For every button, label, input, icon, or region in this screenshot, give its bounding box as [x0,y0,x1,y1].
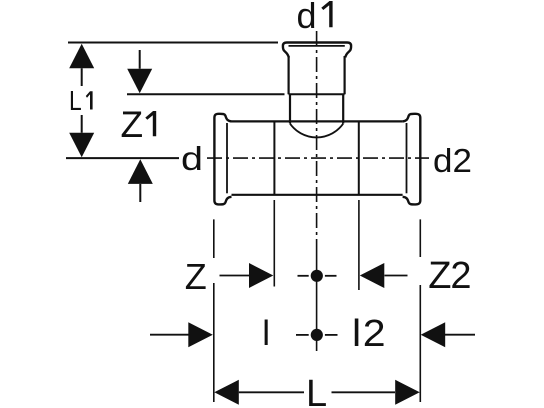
branch tube right wall [342,94,344,123]
branch socket stop (step) [289,93,345,95]
right bead (right socket mouth) [403,114,421,205]
dimension L line right part [332,391,396,393]
left socket stop extension line [273,200,275,287]
dash right of Z center dot [325,275,337,277]
dash left of Z center dot [298,275,309,277]
dimension L line left part [239,391,304,393]
label Z1 [121,106,159,143]
arrow L1 down [69,133,94,157]
arrow L1 up [69,44,94,69]
right socket stop (step) [358,122,360,195]
left socket stop (step) [273,122,275,195]
branch socket left wall [288,56,290,94]
digit 1 of label d1 [321,1,332,27]
dimension Z1 top stem [139,50,141,69]
saddle arc where branch meets body [290,124,343,138]
branch socket inner lip [289,45,345,47]
arrow Z2 left [360,263,385,288]
arrow Z1 down [127,69,152,94]
right socket inner lip [406,123,408,193]
tee fitting: branch bead (top socket mouth) [283,43,351,58]
label d [181,143,203,177]
left socket inner lip [226,123,228,193]
label l [262,316,270,351]
arrow L right [395,380,420,405]
dimension Z1 bottom stem [139,184,141,202]
dimension l2 leader [445,334,475,336]
label Z2 [428,257,470,295]
vertical centerline of branch (dash-dot through fitting) [316,31,318,243]
arrow l2 left [421,322,446,347]
label l2 [352,315,387,353]
label L [306,375,327,408]
arrow L left [214,380,239,405]
label Z [185,259,207,295]
center dot on l row [311,329,323,341]
arrow Z right [249,263,273,288]
right extension line below fitting [419,219,421,402]
dash right of l center dot [325,334,338,336]
d reference line [66,157,179,159]
dimension L1 stem [81,68,83,133]
body top wall (continuous across branch) [232,120,403,122]
branch socket right wall [344,56,346,94]
dimension Z2 leader [385,275,408,277]
label d1 [297,0,335,34]
digit 1 of label L1 [86,91,93,109]
label L1 [69,87,96,115]
vertical centerline of branch (solid through dimension dots) [316,243,318,351]
digit 1 of label Z1 [145,111,156,136]
label d2 [433,144,472,177]
arrow Z1 up [128,159,153,184]
branch tube left wall [289,94,291,123]
branch stop reference line [127,93,285,95]
body bottom wall [232,194,403,196]
center dot on Z row [311,270,323,282]
left bead (left socket mouth) [214,114,231,205]
horizontal centerline of body [207,157,429,159]
dimension Z leader [220,275,250,277]
right socket stop extension line [358,200,360,290]
arrow l right [188,322,213,347]
dimension l leader [150,334,189,336]
dash left of l center dot [296,334,309,336]
top reference line (top of fitting) [68,42,278,44]
left extension line below fitting [213,219,215,402]
